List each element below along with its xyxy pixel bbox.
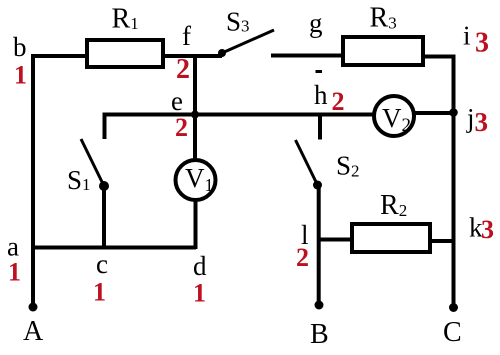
switch S1 pivot dot [99, 181, 109, 191]
svg-text:2: 2 [296, 243, 309, 272]
svg-text:A: A [23, 316, 44, 347]
svg-text:C: C [443, 317, 462, 348]
svg-text:1: 1 [93, 278, 106, 307]
switch S2 pivot dot [313, 181, 322, 190]
wire R2 to right vertical [430, 239, 454, 243]
wire V2 right to node j [414, 111, 454, 115]
svg-text:h: h [314, 80, 328, 110]
svg-text:i: i [463, 21, 471, 51]
wire S2 down through node l to B [317, 185, 321, 304]
voltmeter V2 [374, 96, 414, 136]
svg-text:3: 3 [481, 215, 494, 244]
wire V1 bottom to bottom wire [194, 200, 198, 249]
resistor R1 [87, 40, 163, 67]
node j junction dot [449, 108, 458, 117]
svg-text:f: f [182, 21, 191, 51]
switch S2 blade [296, 140, 318, 185]
svg-text:3: 3 [475, 28, 489, 59]
svg-text:2: 2 [176, 54, 190, 85]
wire node l to R2 [319, 238, 352, 242]
svg-text:3: 3 [475, 107, 489, 137]
switch S3 pivot dot [218, 49, 226, 57]
svg-text:g: g [309, 8, 323, 38]
terminal A dot [29, 303, 38, 312]
voltmeter V1 [176, 160, 216, 200]
switch S1 blade [81, 139, 104, 186]
svg-text:b: b [13, 32, 27, 62]
svg-text:2: 2 [332, 87, 345, 116]
wire h stub below top wire [318, 114, 322, 140]
wire S3 to R3 [271, 54, 343, 58]
resistor R3 [343, 37, 423, 65]
resistor R2 [352, 224, 430, 252]
wire R1 to switch S3 [163, 54, 222, 58]
minus sign below g [316, 70, 323, 73]
node e junction dot [191, 111, 199, 119]
svg-text:d: d [193, 251, 207, 281]
wire f vertical from top wire to V1 top [193, 56, 197, 160]
wire R3 to right vertical down to C [423, 57, 454, 305]
wire e horizontal from S1 corner to V2 [105, 115, 375, 140]
wire S1 down to bottom wire [102, 186, 106, 249]
wire b corner: horizontal b to R1 and left vertical down to A [33, 56, 87, 303]
switch S3 blade [222, 30, 274, 53]
svg-text:1: 1 [14, 61, 27, 90]
svg-text:B: B [310, 319, 329, 350]
svg-text:2: 2 [175, 113, 188, 142]
svg-text:1: 1 [8, 258, 21, 287]
terminal B dot [315, 301, 324, 310]
terminal C dot [449, 303, 458, 312]
wire bottom a-c-d [31, 246, 196, 250]
svg-text:e: e [171, 86, 183, 116]
svg-text:j: j [466, 103, 475, 133]
svg-text:c: c [96, 249, 108, 279]
svg-text:1: 1 [193, 279, 206, 308]
